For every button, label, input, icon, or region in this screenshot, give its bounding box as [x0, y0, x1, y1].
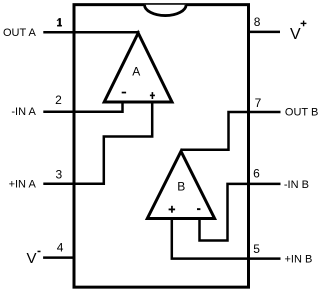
svg-text:+IN A: +IN A	[9, 179, 37, 191]
svg-text:OUT B: OUT B	[285, 107, 318, 119]
svg-text:V: V	[290, 26, 301, 43]
svg-text:A: A	[132, 65, 140, 79]
svg-text:7: 7	[255, 96, 262, 110]
svg-text:8: 8	[254, 15, 261, 29]
svg-text:-IN B: -IN B	[284, 179, 309, 191]
svg-text:2: 2	[55, 93, 62, 107]
svg-text:5: 5	[253, 242, 260, 256]
svg-text:V: V	[27, 250, 37, 267]
svg-text:3: 3	[56, 167, 63, 181]
svg-text:+IN B: +IN B	[285, 253, 313, 265]
svg-text:B: B	[177, 180, 185, 194]
svg-text:OUT A: OUT A	[3, 27, 36, 39]
svg-text:-IN A: -IN A	[11, 106, 36, 118]
svg-text:4: 4	[57, 240, 64, 254]
svg-text:6: 6	[253, 166, 260, 180]
